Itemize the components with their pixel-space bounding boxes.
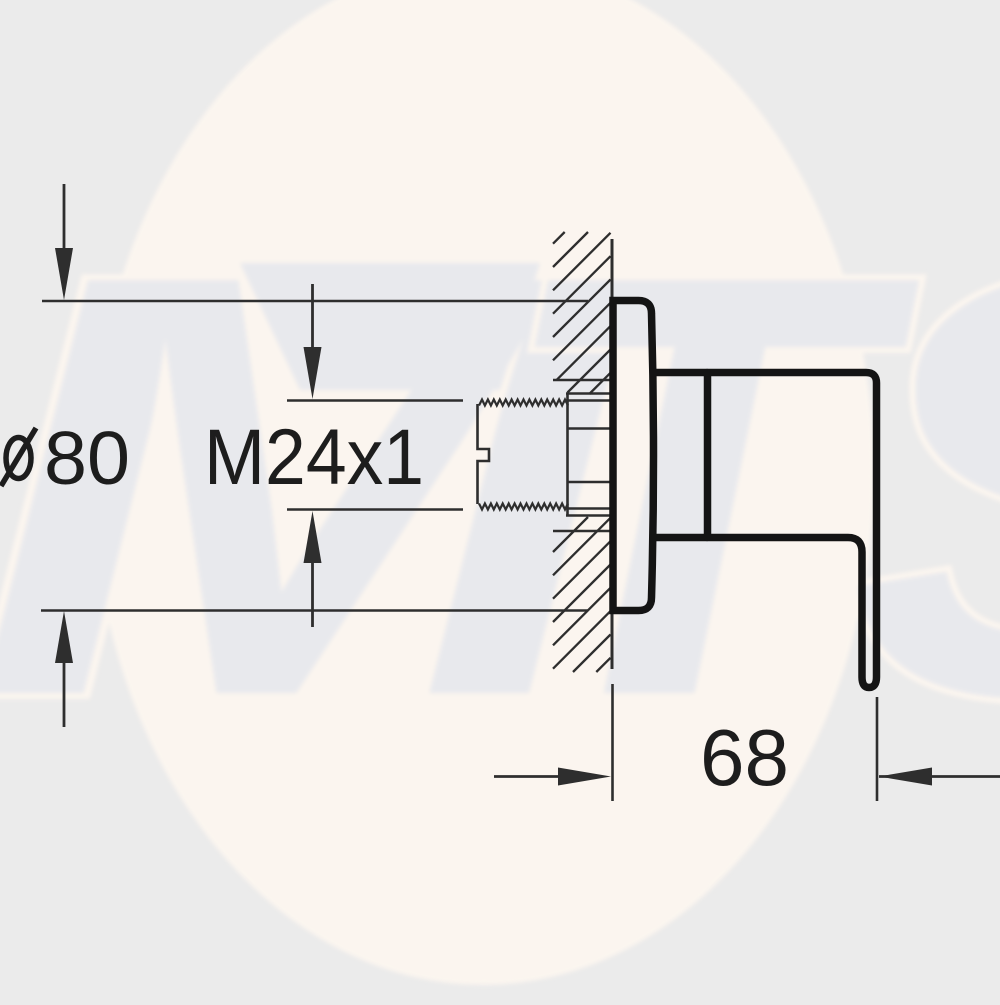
wall section hatch upper [553,232,611,394]
thread crest bottom [479,504,568,510]
dimension line top (plate top extent) [42,300,588,303]
nut left face [566,394,569,516]
nut bottom edge [566,514,611,517]
M24 leader bottom [287,508,463,511]
thread line through nut top [566,399,611,401]
thread line through nut bottom [566,507,611,509]
M24 leader top [287,399,463,402]
watermark letter M [0,151,1000,821]
extension line lever end [876,697,879,801]
neck bottom line [652,534,708,542]
pipe end with notch [478,404,490,504]
dim 68 right arrow [879,775,1000,778]
thread crest top [479,400,568,406]
dim 68 left arrow [494,775,562,778]
svg-text:68: 68 [700,713,789,802]
svg-text:S: S [850,151,1000,821]
label diameter symbol [6,438,31,479]
nut top edge [566,392,611,395]
svg-text:80: 80 [44,416,130,500]
nut facet line upper [568,427,612,429]
wall surface line [611,239,614,669]
svg-text:M24x1: M24x1 [204,412,424,501]
handle body and lever [708,373,877,688]
nut facet line lower [568,481,612,483]
M24 arrow top [311,284,314,352]
wall section hatch lower [553,517,611,672]
dim arrow 80 top [63,184,66,254]
watermark M top fill patch [240,263,540,390]
dimension line bottom (plate bottom extent) [41,609,588,612]
escutcheon plate [613,301,654,611]
extension line wall face [611,684,614,801]
M24 arrow bottom [311,558,314,627]
dim arrow 80 bottom [63,658,66,727]
neck top line [652,369,708,377]
